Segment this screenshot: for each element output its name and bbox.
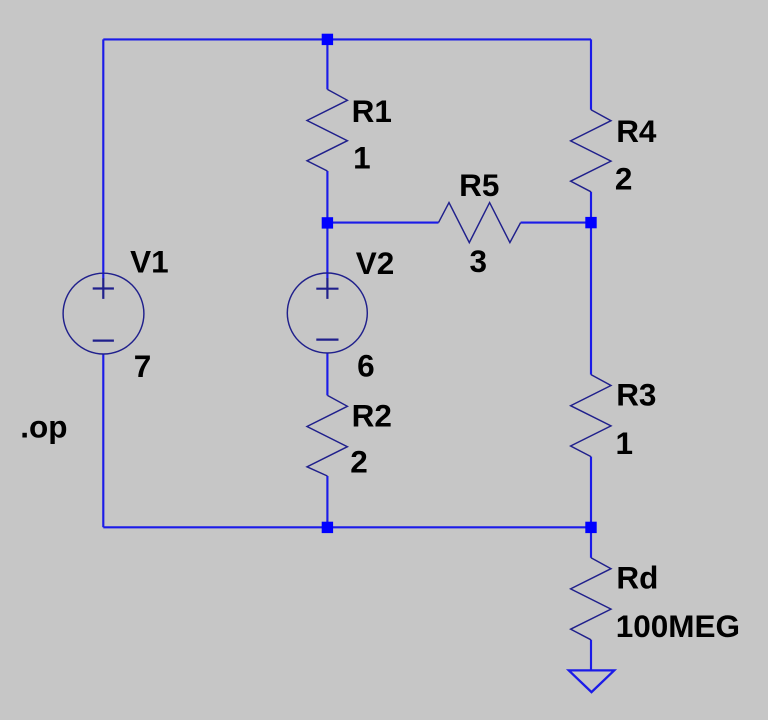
wire R4 bottom to node bbox=[590, 192, 592, 223]
wire R3 bottom to bottom node bbox=[590, 457, 592, 528]
resistor R2 bbox=[307, 395, 347, 476]
svg-text:.op: .op bbox=[20, 409, 67, 445]
wire Rd bottom to ground bbox=[590, 640, 592, 671]
svg-text:2: 2 bbox=[615, 161, 633, 197]
resistor R3 bbox=[571, 375, 611, 457]
svg-text:R1: R1 bbox=[352, 93, 392, 129]
V1 minus bbox=[93, 340, 114, 342]
node bottom-mid junction bbox=[322, 522, 333, 533]
node top junction bbox=[322, 34, 333, 45]
wire right vertical to R4 bbox=[590, 39, 592, 109]
node mid-right junction bbox=[585, 217, 596, 228]
svg-text:Rd: Rd bbox=[616, 560, 658, 596]
wire node to R3 top bbox=[590, 223, 592, 375]
wire node to R5 left bbox=[327, 222, 438, 224]
wire top horizontal bbox=[103, 38, 591, 40]
voltage source V2 circle bbox=[287, 273, 367, 353]
node mid-left junction bbox=[322, 217, 333, 228]
wire top node to R1 bbox=[326, 39, 328, 89]
svg-text:R4: R4 bbox=[616, 113, 657, 149]
wire bottom node to Rd bbox=[590, 527, 592, 558]
svg-text:100MEG: 100MEG bbox=[616, 608, 740, 644]
resistor R1 bbox=[307, 89, 347, 171]
wire R1 bottom through node to V2 top bbox=[326, 171, 328, 279]
ground bbox=[569, 670, 614, 692]
svg-text:R3: R3 bbox=[616, 377, 656, 413]
wire bottom horizontal bbox=[103, 526, 591, 528]
wire R5 right to right node bbox=[521, 222, 591, 224]
svg-text:R5: R5 bbox=[459, 167, 499, 203]
node bottom-right junction bbox=[585, 522, 596, 533]
V1 plus bbox=[93, 278, 114, 299]
svg-text:6: 6 bbox=[357, 348, 375, 384]
svg-text:1: 1 bbox=[353, 140, 371, 176]
wire V2 bottom to R2 bbox=[326, 353, 328, 396]
resistor R4 bbox=[571, 110, 611, 192]
resistor Rd bbox=[571, 558, 611, 640]
svg-text:V2: V2 bbox=[356, 245, 395, 281]
wire V1 bottom to bottom-left corner bbox=[102, 354, 104, 528]
svg-text:R2: R2 bbox=[352, 397, 392, 433]
svg-text:2: 2 bbox=[350, 444, 368, 480]
V2 plus bbox=[316, 278, 338, 299]
resistor R5 bbox=[439, 203, 521, 243]
svg-text:1: 1 bbox=[616, 425, 634, 461]
wire left vertical (top node to V1 plus lead) bbox=[102, 39, 104, 278]
svg-text:3: 3 bbox=[470, 243, 488, 279]
wire R2 bottom to bottom node bbox=[326, 476, 328, 527]
V2 minus bbox=[316, 339, 338, 341]
voltage source V1 circle bbox=[63, 273, 144, 354]
svg-text:7: 7 bbox=[134, 348, 152, 384]
svg-text:V1: V1 bbox=[130, 243, 169, 279]
